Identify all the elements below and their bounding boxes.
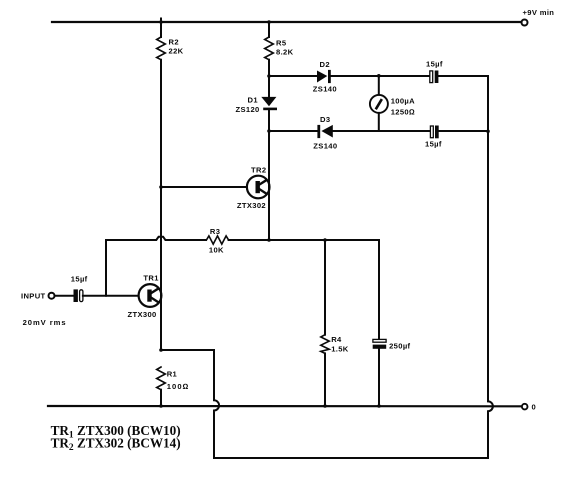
svg-text:1.5K: 1.5K [331,345,349,354]
wire +9V supply rail [52,21,522,23]
wire capacitor to right corner [438,75,488,77]
resistor R5 [265,37,274,60]
svg-text:INPUT: INPUT [21,292,46,301]
svg-text:0: 0 [532,403,537,412]
capacitor 15uf (bottom) [430,126,438,139]
svg-text:D2: D2 [320,60,330,69]
wire 0V rail [48,405,522,407]
svg-text:R3: R3 [210,227,220,236]
resistor R3 10K [206,236,228,244]
meter M1 100uA [370,76,388,131]
svg-text:1250Ω: 1250Ω [391,108,415,117]
svg-text:8.2K: 8.2K [276,48,294,57]
wire capacitor to right vertical [439,130,488,132]
svg-text:100Ω: 100Ω [167,382,190,391]
svg-text:D3: D3 [320,115,330,124]
svg-text:ZS120: ZS120 [236,105,260,114]
junction R4 / R3 row [323,238,327,242]
diode D1 ZS120 [261,76,277,131]
svg-text:15µf: 15µf [426,60,443,69]
wire R2 bottom / TR2 base node / TR1 collector-emitter column [160,60,162,350]
transistor TR2 ZTX302 [247,176,270,199]
terminal INPUT [49,293,55,299]
svg-text:R2: R2 [169,38,179,47]
wire left feedback vertical from emitter branch (hops 0V rail) [161,350,219,458]
svg-text:D1: D1 [248,96,259,105]
junction TR2 base [159,185,163,189]
wire bottom feedback horizontal [214,457,488,459]
wire input terminal to capacitor [55,295,74,297]
wire rail to R2 [160,19,162,38]
svg-text:ZS140: ZS140 [313,85,337,94]
wire capacitor to TR1 base [83,295,139,297]
terminal 0V [522,404,528,410]
junction R4 / 0V rail [323,404,327,408]
svg-text:+9V min: +9V min [523,8,555,17]
junction R5 / D2 / D1 [267,74,271,78]
wire D2 cathode to capacitor [331,75,430,77]
wire D3 anode to capacitor (bottom) [333,130,430,132]
capacitor 15uf (input) [74,289,83,302]
wire node to D3 cathode [269,130,317,132]
wire R5 to node [268,60,270,76]
svg-text:ZTX302: ZTX302 [237,201,266,210]
svg-text:10K: 10K [209,246,224,255]
svg-text:R4: R4 [331,335,342,344]
junction D1 / D3 [267,129,271,133]
svg-text:TR1: TR1 [143,274,159,283]
resistor R4 1.5K [321,240,329,406]
wire bias vertical to TR1 base [105,240,107,296]
svg-text:TR2: TR2 [251,166,266,175]
junction 250uf / 0V rail [377,404,381,408]
resistor R1 100ohm [157,367,166,406]
capacitor 15uf (top) [430,71,439,84]
junction meter top [377,74,381,78]
wire TR2 base [161,186,247,188]
svg-text:15µf: 15µf [425,139,442,148]
svg-text:R5: R5 [276,39,287,48]
junction R1 / 0V rail [159,404,163,408]
diode D3 ZS140 [317,125,332,138]
svg-text:ZTX300: ZTX300 [128,310,157,319]
wire right feedback vertical (hops 0V rail) [488,76,493,458]
svg-text:ZS140: ZS140 [313,142,337,151]
wire rail to R5 [268,22,270,37]
junction right vertical / bottom cap [486,130,490,134]
wire R3 row right [229,239,379,241]
junction R2 / +9V rail [159,20,163,24]
junction TR2 emitter / R3 row [267,238,271,242]
wire R3 row left (hops TR1 column) [106,237,206,240]
resistor R2 [157,37,166,60]
wire TR2 collector-emitter column [268,131,270,240]
svg-text:22K: 22K [169,47,184,56]
junction TR1 emitter / R1 [159,348,163,352]
wire node to D2 anode [269,75,317,77]
svg-text:250µf: 250µf [389,341,410,350]
svg-text:R1: R1 [167,370,178,379]
diode D2 ZS140 [317,70,331,83]
svg-text:100µA: 100µA [391,97,415,106]
capacitor 250uf [373,240,387,406]
svg-text:15µf: 15µf [71,275,88,284]
transistor TR1 ZTX300 [139,284,162,307]
svg-text:20mV rms: 20mV rms [23,318,67,327]
terminal +9V [522,20,528,26]
junction R5 / +9V rail [267,20,271,24]
